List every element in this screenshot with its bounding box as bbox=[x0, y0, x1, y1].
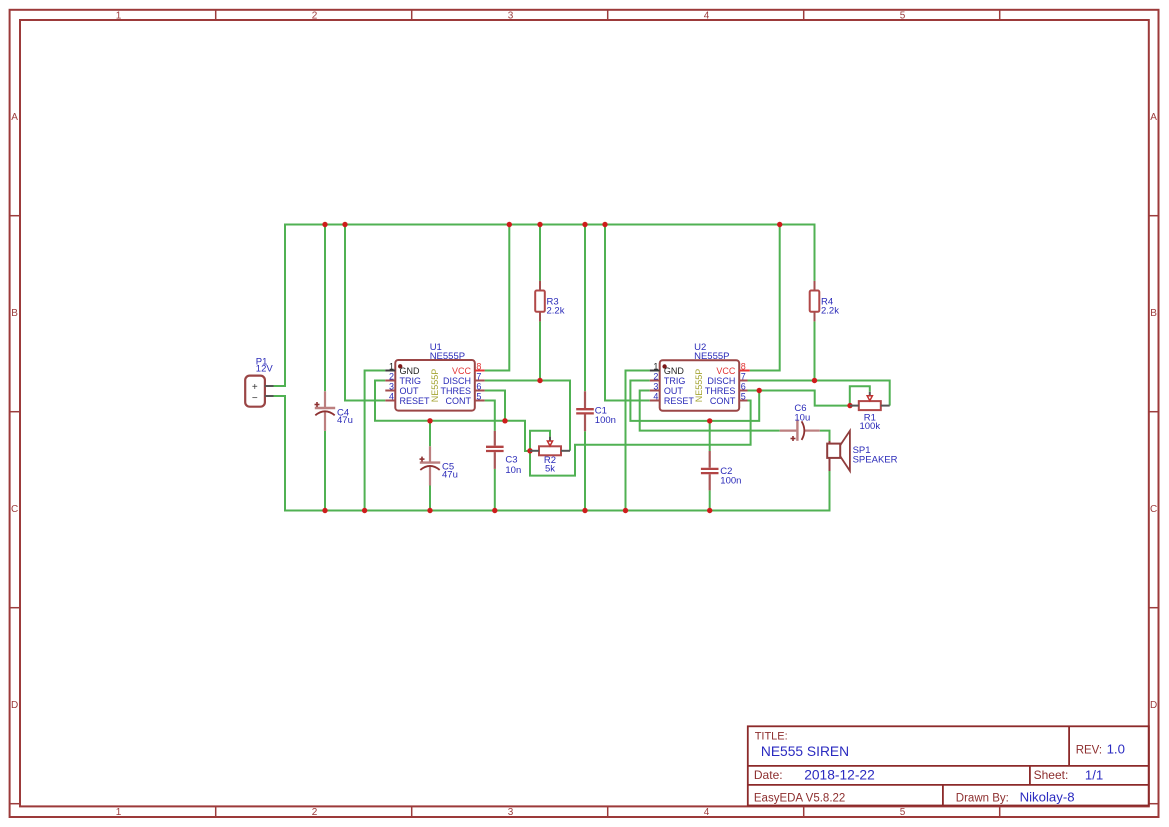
R3 value label 2.2k bbox=[547, 306, 565, 317]
wire VCC rail to U1 RESET pin4 bbox=[345, 225, 385, 401]
node junction bottom rail C1 bbox=[582, 508, 587, 513]
R1 value label 100k bbox=[859, 421, 880, 432]
wire C2 bottom to GND rail bbox=[709, 490, 711, 510]
C5 plus mark bbox=[420, 457, 425, 462]
title block outline bbox=[748, 726, 1149, 805]
svg-text:3: 3 bbox=[389, 381, 394, 391]
capacitor C4 polarized bbox=[315, 391, 335, 431]
U2 reference label bbox=[694, 342, 706, 353]
C5 curved plate bbox=[420, 466, 439, 470]
node junction C5 TRIG bbox=[427, 418, 432, 423]
C4 plus mark bbox=[315, 402, 320, 407]
svg-text:OUT: OUT bbox=[400, 386, 420, 396]
C4 curved plate bbox=[315, 411, 334, 415]
wire U1 VCC pin8 to top rail bbox=[485, 225, 510, 371]
node junction U2 THRES T bbox=[757, 388, 762, 393]
frame column numbers top bbox=[116, 11, 906, 22]
speaker SP1 top stub bbox=[829, 441, 831, 444]
svg-text:TITLE:: TITLE: bbox=[755, 730, 788, 742]
svg-text:1: 1 bbox=[116, 11, 122, 22]
svg-text:B: B bbox=[11, 308, 18, 319]
svg-text:6: 6 bbox=[741, 381, 746, 391]
node junction C2 U2 TRIG bbox=[707, 418, 712, 423]
svg-text:Sheet:: Sheet: bbox=[1034, 768, 1069, 782]
svg-text:1.0: 1.0 bbox=[1107, 742, 1125, 757]
node junction top rail C4 bbox=[322, 222, 327, 227]
svg-text:+: + bbox=[252, 382, 258, 393]
title block label Date: bbox=[754, 768, 783, 782]
U1 pin 5 stub bbox=[475, 400, 485, 402]
svg-text:NE555P: NE555P bbox=[694, 369, 704, 403]
node junction R2 left terminal bbox=[527, 448, 532, 453]
svg-text:100n: 100n bbox=[720, 475, 741, 486]
svg-text:−: − bbox=[252, 393, 258, 404]
title block value 1.0 bbox=[1107, 742, 1125, 757]
U2 pin 3 stub bbox=[650, 390, 660, 392]
svg-text:TRIG: TRIG bbox=[400, 376, 422, 386]
svg-text:THRES: THRES bbox=[705, 386, 736, 396]
node junction top rail R3 bbox=[537, 222, 542, 227]
node junction R3 U1 DISCH bbox=[537, 378, 542, 383]
U2 pin 7 stub bbox=[739, 380, 747, 382]
svg-text:5: 5 bbox=[741, 391, 746, 401]
wire C4 bottom to GND rail bbox=[324, 431, 326, 511]
potentiometer R2 body bbox=[539, 446, 561, 455]
U1 pin 4 stub bbox=[385, 400, 395, 402]
svg-text:C: C bbox=[1150, 504, 1157, 515]
op-amp/timer U2 NE555P body bbox=[660, 360, 740, 411]
U2 internal part name NE555P vertical bbox=[694, 369, 704, 403]
capacitor C3 bbox=[486, 431, 504, 469]
wire R3 top to VCC rail bbox=[539, 225, 541, 281]
svg-text:3: 3 bbox=[508, 807, 514, 818]
wire U2 THRES pin6 to R1 left node bbox=[748, 391, 851, 406]
SP1 reference label bbox=[853, 445, 871, 456]
svg-text:5: 5 bbox=[476, 391, 481, 401]
U2 pin 4 stub bbox=[650, 400, 660, 402]
R1 left terminal stub bbox=[850, 405, 859, 407]
resistor R3 body bbox=[535, 291, 545, 312]
U2 pin 1 stub (GND) bbox=[650, 370, 660, 372]
svg-text:Date:: Date: bbox=[754, 768, 783, 782]
wire GND bottom rail with P1- riser and speaker riser bbox=[274, 396, 830, 511]
capacitor C1 bbox=[576, 391, 594, 431]
svg-text:GND: GND bbox=[664, 366, 685, 376]
wire R3 bottom to U1 DISCH net bbox=[539, 321, 541, 380]
svg-text:CONT: CONT bbox=[446, 396, 472, 406]
SP1 value label SPEAKER bbox=[853, 455, 898, 466]
wire U1 THRES pin6 to TRIG net bbox=[485, 391, 505, 421]
svg-text:D: D bbox=[1150, 700, 1157, 711]
C5 reference label bbox=[442, 462, 454, 473]
C1 reference label bbox=[595, 406, 607, 417]
P1 plus polarity mark bbox=[252, 382, 258, 393]
wire C5 bottom to GND rail bbox=[429, 486, 431, 511]
node junction bottom rail C2 bbox=[707, 508, 712, 513]
svg-text:12V: 12V bbox=[256, 364, 274, 375]
U1 pin names right bbox=[440, 366, 471, 406]
title block value NE555 SIREN bbox=[761, 744, 849, 759]
svg-text:THRES: THRES bbox=[440, 386, 471, 396]
U2 pin 6 stub bbox=[739, 390, 747, 392]
svg-text:4: 4 bbox=[704, 807, 710, 818]
svg-text:1: 1 bbox=[653, 361, 658, 371]
svg-text:2: 2 bbox=[312, 11, 318, 22]
node junction bottom rail C4 bbox=[322, 508, 327, 513]
svg-text:1/1: 1/1 bbox=[1085, 768, 1103, 783]
U2 value label NE555P bbox=[694, 351, 729, 362]
U1 pin 1 stub (GND) bbox=[385, 370, 395, 372]
C3 reference label bbox=[505, 455, 517, 466]
U2 pin 8 stub (VCC) bbox=[739, 370, 750, 372]
U2 pin 2 stub bbox=[650, 380, 660, 382]
svg-text:DISCH: DISCH bbox=[443, 376, 471, 386]
title block value Nikolay-8 bbox=[1020, 790, 1075, 805]
U1 value label NE555P bbox=[430, 351, 465, 362]
svg-text:10n: 10n bbox=[505, 465, 521, 476]
svg-text:2: 2 bbox=[653, 371, 658, 381]
wire C2 top to U2 TRIG net bbox=[709, 421, 711, 451]
title block label REV: bbox=[1076, 744, 1102, 756]
svg-text:NE555P: NE555P bbox=[694, 351, 729, 362]
C4 value label 47u bbox=[337, 415, 353, 426]
C2 reference label bbox=[720, 466, 732, 477]
svg-text:OUT: OUT bbox=[664, 386, 684, 396]
wire U2 DISCH pin7 to R1 right bbox=[748, 381, 890, 406]
svg-text:5k: 5k bbox=[545, 464, 555, 475]
svg-text:C: C bbox=[11, 504, 18, 515]
R3 top pin stub bbox=[539, 281, 541, 291]
wire U1 DISCH pin7 to R2 right bbox=[485, 381, 570, 451]
node junction bottom rail U2 GND bbox=[623, 508, 628, 513]
frame column numbers bottom bbox=[116, 807, 906, 818]
svg-text:RESET: RESET bbox=[664, 396, 695, 406]
frame row letters right bbox=[1150, 112, 1157, 711]
C6 plus mark bbox=[791, 436, 796, 441]
U1 pin numbers left bbox=[389, 361, 394, 401]
title block label TITLE: bbox=[755, 730, 788, 742]
P1 pin 1 stub bbox=[265, 385, 274, 387]
wire C1 bottom to GND rail bbox=[584, 431, 586, 510]
P1 value label 12V bbox=[256, 364, 274, 375]
node junction bottom rail U1 GND bbox=[362, 508, 367, 513]
svg-text:DISCH: DISCH bbox=[707, 376, 735, 386]
U1 pin numbers right bbox=[476, 361, 481, 401]
capacitor C6 polarized horizontal bbox=[780, 420, 820, 440]
C1 value label 100n bbox=[595, 415, 616, 426]
C2 value label 100n bbox=[720, 475, 741, 486]
wire U2 GND pin1 to bottom rail bbox=[626, 371, 650, 511]
C6 value label 10u bbox=[794, 412, 810, 423]
svg-text:10u: 10u bbox=[794, 412, 810, 423]
C5 value label 47u bbox=[442, 470, 458, 481]
svg-text:2.2k: 2.2k bbox=[547, 306, 565, 317]
U2 pin numbers right bbox=[741, 361, 746, 401]
svg-text:GND: GND bbox=[400, 366, 421, 376]
P1 pin 2 stub bbox=[265, 395, 274, 397]
wire U1 TRIG pin2 to R2 left node bbox=[375, 381, 530, 452]
node junction bottom rail C3 bbox=[492, 508, 497, 513]
P1 reference label bbox=[256, 356, 268, 367]
capacitor C5 polarized bbox=[420, 446, 440, 485]
node junction R1 left terminal bbox=[847, 403, 852, 408]
wire C5 top to TRIG net bbox=[429, 421, 431, 447]
svg-text:A: A bbox=[1150, 112, 1157, 123]
svg-text:3: 3 bbox=[653, 381, 658, 391]
R1 wiper stub bbox=[869, 392, 871, 396]
U1 internal part name NE555P vertical bbox=[430, 369, 440, 403]
U2 pin 5 stub bbox=[739, 400, 747, 402]
R2 wiper stub bbox=[549, 437, 551, 442]
node junction top rail U2 VCC bbox=[777, 222, 782, 227]
node junction U1 THRES TRIG bbox=[502, 418, 507, 423]
svg-text:8: 8 bbox=[476, 361, 481, 371]
wire R2 left node to U2 CONT pin5 bbox=[530, 401, 751, 476]
svg-text:4: 4 bbox=[389, 391, 394, 401]
R3 bottom pin stub bbox=[539, 312, 541, 322]
C4 reference label bbox=[337, 408, 349, 419]
U2 pin-1 marker dot bbox=[662, 364, 666, 368]
R2 reference label bbox=[544, 455, 556, 466]
U1 pin 2 stub bbox=[385, 380, 395, 382]
svg-text:47u: 47u bbox=[337, 415, 353, 426]
wire C1 top to VCC rail bbox=[584, 225, 586, 392]
node junction R4 U2 DISCH bbox=[812, 378, 817, 383]
R2 wiper arrow bbox=[547, 441, 552, 446]
U2 pin numbers left bbox=[653, 361, 658, 401]
R1 wiper arrow bbox=[867, 396, 872, 401]
svg-text:D: D bbox=[11, 700, 18, 711]
svg-text:2: 2 bbox=[389, 371, 394, 381]
U2 pin names right bbox=[705, 366, 736, 406]
wire U2 VCC pin8 to top rail bbox=[750, 225, 780, 371]
R4 top pin stub bbox=[814, 281, 816, 291]
wire R4 bottom to U2 DISCH net bbox=[814, 321, 816, 380]
U1 pin 8 stub (VCC) bbox=[475, 370, 485, 372]
R4 reference label bbox=[821, 296, 833, 307]
R4 bottom pin stub bbox=[814, 312, 816, 322]
U1 reference label bbox=[430, 342, 442, 353]
op-amp/timer U1 NE555P body bbox=[395, 360, 475, 411]
svg-text:NE555P: NE555P bbox=[430, 369, 440, 403]
node junction top rail U2 RESET bbox=[602, 222, 607, 227]
R4 value label 2.2k bbox=[821, 306, 839, 317]
R1 right terminal stub bbox=[881, 405, 890, 407]
wire U1 CONT pin5 to C3 bbox=[485, 401, 495, 431]
wire U2 OUT pin3 to C6 bbox=[640, 391, 780, 431]
node junction bottom rail C5 bbox=[427, 508, 432, 513]
svg-text:4: 4 bbox=[653, 391, 658, 401]
node junction top rail C1 bbox=[582, 222, 587, 227]
U1 pin 3 stub bbox=[385, 390, 395, 392]
svg-text:2018-12-22: 2018-12-22 bbox=[804, 768, 875, 783]
U1 pin 6 stub bbox=[475, 390, 485, 392]
wire C4 top to VCC rail bbox=[324, 225, 326, 392]
svg-text:TRIG: TRIG bbox=[664, 376, 686, 386]
wire U1 GND pin1 to bottom rail bbox=[365, 371, 386, 511]
svg-text:100k: 100k bbox=[859, 421, 880, 432]
U2 pin names left bbox=[664, 366, 695, 406]
svg-text:VCC: VCC bbox=[452, 366, 472, 376]
svg-text:EasyEDA V5.8.22: EasyEDA V5.8.22 bbox=[754, 792, 845, 804]
U1 pin names left bbox=[400, 366, 431, 406]
R3 reference label bbox=[547, 296, 559, 307]
svg-text:Nikolay-8: Nikolay-8 bbox=[1020, 790, 1075, 805]
wire U2 TRIG pin2 to THRES net and C2 bbox=[630, 381, 759, 421]
node junction top rail U1 VCC bbox=[507, 222, 512, 227]
title block value 2018-12-22 bbox=[804, 768, 875, 783]
potentiometer R1 body bbox=[859, 401, 881, 410]
svg-text:1: 1 bbox=[389, 361, 394, 371]
svg-text:5: 5 bbox=[900, 807, 906, 818]
C3 value label 10n bbox=[505, 465, 521, 476]
wire VCC top rail with P1+ riser and R4 drop bbox=[274, 225, 815, 387]
C6 curved plate bbox=[802, 421, 805, 440]
resistor R4 body bbox=[810, 291, 820, 312]
svg-text:B: B bbox=[1150, 308, 1157, 319]
R2 left terminal stub bbox=[530, 450, 539, 452]
title block value 1/1 bbox=[1085, 768, 1103, 783]
title block label EasyEDA V5.8.22 bbox=[754, 792, 845, 804]
svg-text:7: 7 bbox=[476, 371, 481, 381]
svg-text:REV:: REV: bbox=[1076, 744, 1102, 756]
svg-text:100n: 100n bbox=[595, 415, 616, 426]
wire R2 wiper loop bbox=[530, 431, 550, 451]
C6 reference label bbox=[794, 403, 806, 414]
svg-text:NE555P: NE555P bbox=[430, 351, 465, 362]
title block label Sheet: bbox=[1034, 768, 1069, 782]
wire R1 wiper loop bbox=[850, 386, 870, 405]
wire C3 bottom to GND rail bbox=[494, 469, 496, 511]
connector P1 body bbox=[245, 376, 265, 407]
title block label Drawn By: bbox=[956, 792, 1009, 804]
svg-text:2.2k: 2.2k bbox=[821, 306, 839, 317]
R2 value label 5k bbox=[545, 464, 555, 475]
svg-text:5: 5 bbox=[900, 11, 906, 22]
svg-text:7: 7 bbox=[741, 371, 746, 381]
svg-text:6: 6 bbox=[476, 381, 481, 391]
R2 right terminal stub bbox=[561, 450, 570, 452]
R1 reference label bbox=[864, 413, 876, 424]
frame row letters left bbox=[11, 112, 18, 711]
speaker SP1 horn bbox=[840, 431, 850, 471]
P1 minus polarity mark bbox=[252, 393, 258, 404]
U1 pin-1 marker dot bbox=[398, 364, 402, 368]
wire C6 right to speaker top bbox=[820, 431, 830, 441]
speaker SP1 box bbox=[827, 444, 840, 458]
svg-text:RESET: RESET bbox=[400, 396, 431, 406]
U1 pin 7 stub bbox=[475, 380, 485, 382]
svg-text:1: 1 bbox=[116, 807, 122, 818]
svg-text:VCC: VCC bbox=[716, 366, 736, 376]
svg-text:3: 3 bbox=[508, 11, 514, 22]
svg-text:SPEAKER: SPEAKER bbox=[853, 455, 898, 466]
capacitor C2 bbox=[701, 451, 719, 490]
svg-text:4: 4 bbox=[704, 11, 710, 22]
svg-text:47u: 47u bbox=[442, 470, 458, 481]
svg-text:CONT: CONT bbox=[710, 396, 736, 406]
speaker SP1 bottom stub bbox=[829, 458, 831, 471]
svg-text:A: A bbox=[11, 112, 18, 123]
svg-text:Drawn By:: Drawn By: bbox=[956, 792, 1009, 804]
node junction top rail U1 RESET bbox=[342, 222, 347, 227]
svg-text:2: 2 bbox=[312, 807, 318, 818]
svg-text:8: 8 bbox=[741, 361, 746, 371]
wire VCC rail to U2 RESET pin4 bbox=[605, 225, 650, 401]
svg-text:NE555 SIREN: NE555 SIREN bbox=[761, 744, 849, 759]
svg-text:C3: C3 bbox=[505, 455, 517, 466]
